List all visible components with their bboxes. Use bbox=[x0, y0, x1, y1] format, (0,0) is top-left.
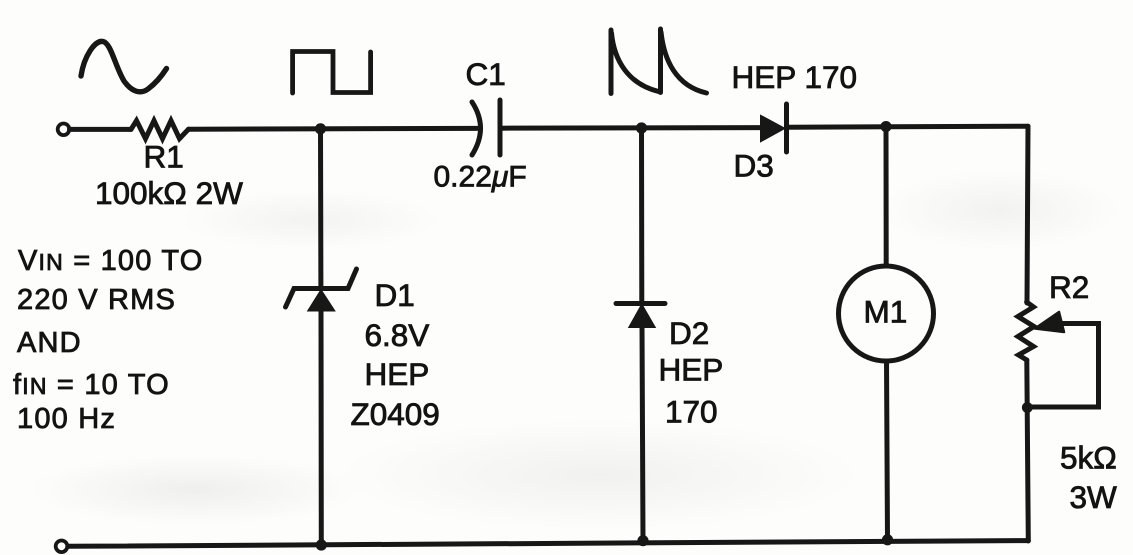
square wave symbol bbox=[293, 52, 371, 94]
svg-text:C1: C1 bbox=[466, 56, 506, 92]
R2 wiper loop wire bbox=[1027, 324, 1098, 408]
svg-text:D2: D2 bbox=[669, 315, 709, 351]
svg-text:R2: R2 bbox=[1049, 269, 1089, 305]
zener D1 triangle bbox=[309, 291, 335, 311]
wire: C1 to D3 bbox=[502, 125, 762, 131]
svg-text:Z0409: Z0409 bbox=[351, 396, 440, 432]
wire: R2 to bottom bbox=[1027, 360, 1029, 541]
svg-text:6.8V: 6.8V bbox=[365, 317, 430, 353]
wire: terminal to R1 bbox=[70, 127, 132, 132]
capacitor C1 straight plate bbox=[498, 100, 503, 155]
svg-text:fIN = 10 TO: fIN = 10 TO bbox=[13, 369, 170, 401]
output terminal bottom-left bbox=[56, 541, 68, 553]
wire: D3 to right corner bbox=[788, 126, 1028, 127]
sawtooth waveform symbol bbox=[611, 29, 707, 94]
motor M1 circle bbox=[839, 266, 934, 361]
svg-text:D1: D1 bbox=[375, 277, 415, 313]
svg-text:AND: AND bbox=[17, 327, 82, 359]
svg-text:5kΩ: 5kΩ bbox=[1060, 440, 1117, 476]
node: C1/D2 junction bbox=[636, 122, 647, 133]
diode D3 cathode bar bbox=[784, 104, 789, 152]
sine wave symbol bbox=[81, 41, 167, 91]
capacitor C1 curved plate bbox=[472, 102, 481, 155]
node: D2 bottom junction bbox=[637, 535, 648, 546]
node: D1 bottom junction bbox=[316, 539, 327, 550]
svg-text:VIN = 100 TO: VIN = 100 TO bbox=[18, 245, 203, 277]
input terminal top-left bbox=[58, 124, 70, 136]
svg-text:HEP: HEP bbox=[365, 356, 430, 392]
resistor R1 bbox=[131, 121, 189, 139]
wire: D1 to bottom bbox=[319, 308, 324, 545]
wire: node to M1 bbox=[884, 127, 889, 267]
svg-text:170: 170 bbox=[665, 394, 718, 430]
node: M1 bottom junction bbox=[882, 534, 893, 545]
R2 wiper arrow bbox=[1035, 312, 1064, 332]
wire: node to D2 bbox=[639, 128, 644, 303]
svg-text:R1: R1 bbox=[144, 139, 184, 175]
svg-text:3W: 3W bbox=[1070, 479, 1118, 515]
potentiometer R2 zigzag bbox=[1018, 302, 1034, 360]
wire: top-right corner down to R2 bbox=[1027, 126, 1028, 303]
svg-text:220 V RMS: 220 V RMS bbox=[17, 284, 176, 316]
svg-text:HEP: HEP bbox=[659, 352, 724, 388]
svg-text:100 Hz: 100 Hz bbox=[17, 403, 116, 435]
node: R1/D1 junction bbox=[315, 123, 326, 134]
diode D3 arrow bbox=[761, 116, 784, 141]
svg-text:M1: M1 bbox=[864, 294, 908, 330]
wire: D2 to bottom bbox=[642, 325, 643, 541]
wire: R1 to C1 bbox=[189, 126, 478, 132]
bottom wire bbox=[68, 541, 1028, 547]
node: M1 top junction bbox=[880, 121, 891, 132]
svg-text:HEP 170: HEP 170 bbox=[732, 59, 858, 95]
diode D2 cathode bar bbox=[616, 301, 665, 306]
svg-text:100kΩ 2W: 100kΩ 2W bbox=[95, 175, 243, 211]
svg-text:0.22μF: 0.22μF bbox=[434, 161, 527, 194]
zener D1 cathode bar with hooks bbox=[286, 269, 357, 307]
node: R2 wiper bottom junction bbox=[1022, 402, 1033, 413]
svg-text:D3: D3 bbox=[734, 148, 774, 184]
wire: M1 to bottom bbox=[887, 361, 888, 540]
diode D2 triangle bbox=[630, 305, 655, 327]
wire: node to D1 bbox=[318, 129, 323, 288]
